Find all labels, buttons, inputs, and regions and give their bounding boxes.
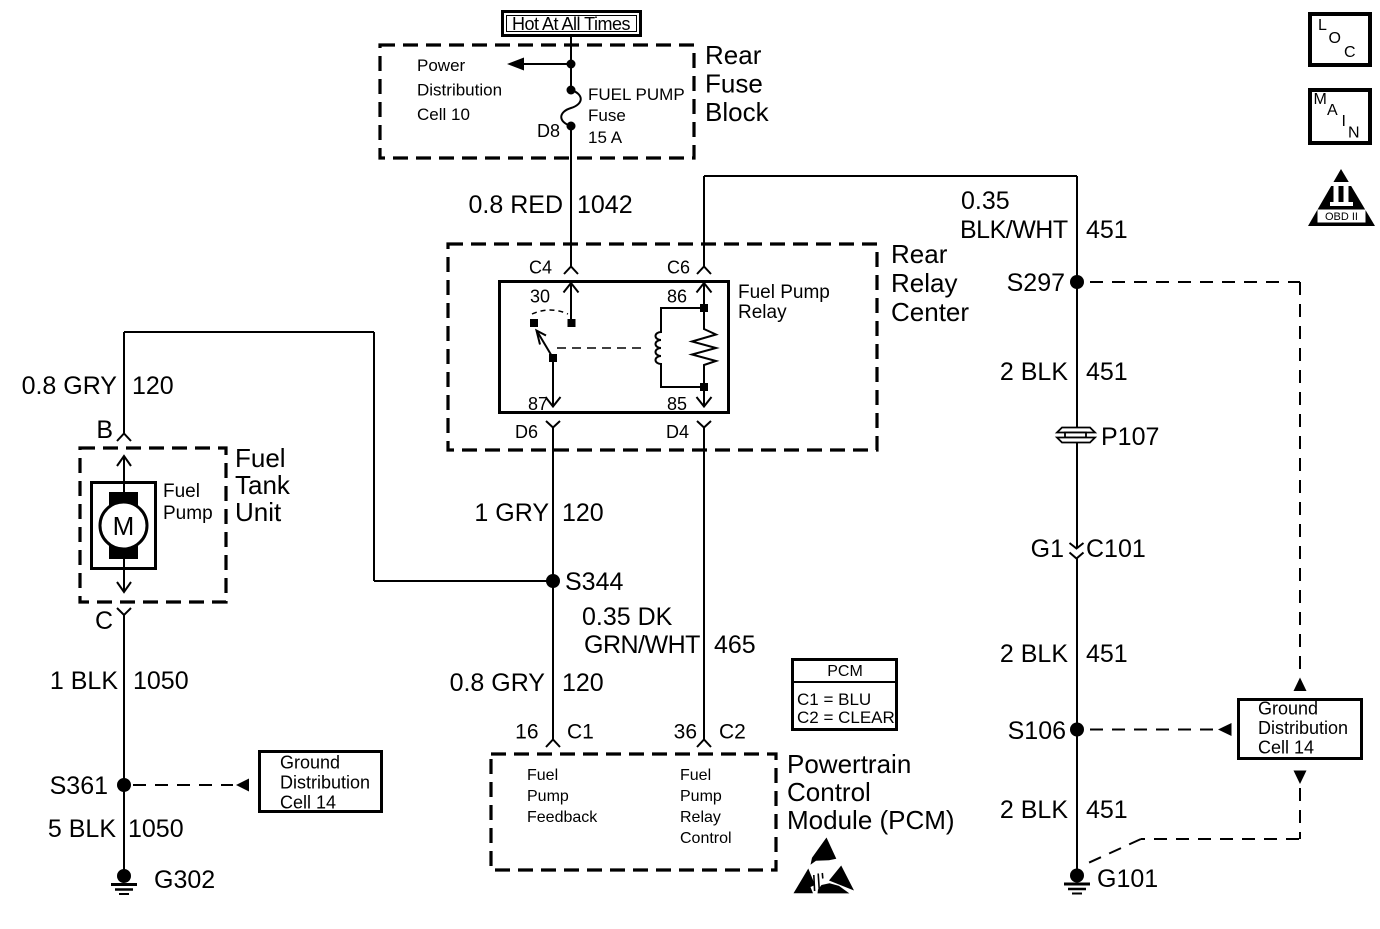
svg-text:S297: S297 xyxy=(1007,269,1065,297)
arrow to Power Distribution Cell 10 xyxy=(507,58,571,71)
svg-text:GRN/WHT: GRN/WHT xyxy=(584,631,700,659)
svg-text:D6: D6 xyxy=(515,422,538,442)
svg-text:Ground: Ground xyxy=(1258,699,1318,719)
svg-text:120: 120 xyxy=(562,499,604,527)
label 0.35 BLK/WHT 451 xyxy=(960,187,1128,244)
label 2 BLK 451 (lower) xyxy=(1000,796,1128,824)
svg-text:C2: C2 xyxy=(719,721,746,744)
svg-text:Hot At All Times: Hot At All Times xyxy=(512,14,631,34)
fuel tank unit dashed box xyxy=(80,448,226,602)
svg-text:451: 451 xyxy=(1086,640,1128,668)
svg-text:G101: G101 xyxy=(1097,865,1158,893)
node S344 xyxy=(546,568,623,596)
svg-text:Pump: Pump xyxy=(163,503,213,524)
PCM connector legend box xyxy=(791,660,897,730)
svg-text:Fuel: Fuel xyxy=(680,767,711,784)
svg-text:Fuel: Fuel xyxy=(163,481,200,502)
switch travel arc dashed xyxy=(532,310,568,314)
svg-text:Rear: Rear xyxy=(891,239,948,269)
svg-text:Powertrain: Powertrain xyxy=(787,749,911,779)
label Fuel Pump Relay Control xyxy=(680,767,732,847)
connector P107 xyxy=(1057,423,1159,451)
svg-text:36: 36 xyxy=(674,721,697,744)
wire from fuel tank B to relay branch xyxy=(124,332,553,581)
svg-text:451: 451 xyxy=(1086,796,1128,824)
arrowhead into box top xyxy=(1294,678,1307,692)
connector G1 C101 xyxy=(1031,535,1146,563)
svg-text:Distribution: Distribution xyxy=(417,81,502,100)
label 0.8 GRY 120 (pcm feedback wire) xyxy=(450,669,604,697)
svg-text:Pump: Pump xyxy=(680,788,722,805)
svg-text:S361: S361 xyxy=(50,772,108,800)
label FUEL PUMP Fuse 15 A xyxy=(588,85,685,147)
svg-text:M: M xyxy=(113,511,135,541)
svg-text:BLK/WHT: BLK/WHT xyxy=(960,216,1068,244)
label 2 BLK 451 (upper) xyxy=(1000,358,1128,386)
svg-text:Fuse: Fuse xyxy=(588,106,626,125)
svg-text:Pump: Pump xyxy=(527,788,569,805)
svg-text:2 BLK: 2 BLK xyxy=(1000,640,1068,668)
svg-text:Rear: Rear xyxy=(705,40,762,70)
arrowhead out of box bottom xyxy=(1294,771,1307,785)
switch blade with arrowhead xyxy=(537,331,558,363)
svg-text:465: 465 xyxy=(714,631,756,659)
power feed box Hot At All Times xyxy=(503,12,641,36)
connector D6 xyxy=(515,421,560,442)
connector C4 xyxy=(529,258,578,278)
svg-text:S344: S344 xyxy=(565,568,623,596)
label Fuel Pump xyxy=(163,481,213,524)
svg-text:Control: Control xyxy=(787,777,871,807)
dashed reference box to G101 xyxy=(1086,788,1300,864)
svg-text:15 A: 15 A xyxy=(588,128,623,147)
dashed reference S297 to ground distribution xyxy=(1090,282,1300,674)
svg-text:L: L xyxy=(1318,17,1327,34)
relay pin 30 terminal arrow xyxy=(564,283,579,327)
svg-text:120: 120 xyxy=(562,669,604,697)
svg-text:Fuel Pump: Fuel Pump xyxy=(738,282,830,303)
svg-text:Fuel: Fuel xyxy=(527,767,558,784)
node S297 xyxy=(1007,269,1084,297)
svg-text:Center: Center xyxy=(891,297,969,327)
svg-text:C1 = BLU: C1 = BLU xyxy=(797,690,871,709)
label Power Distribution Cell 10 xyxy=(417,56,502,124)
connector pin 36 C2 xyxy=(674,721,746,748)
svg-text:1 GRY: 1 GRY xyxy=(474,499,549,527)
pin C xyxy=(95,607,131,635)
svg-text:1050: 1050 xyxy=(133,667,189,695)
ground G302 xyxy=(111,866,215,894)
fuel pump terminal arrow in xyxy=(117,456,131,496)
node S361 xyxy=(50,772,131,800)
svg-text:Power: Power xyxy=(417,56,466,75)
svg-text:D8: D8 xyxy=(537,121,560,141)
icon LOC xyxy=(1310,14,1370,65)
relay resistor xyxy=(692,308,716,387)
wire 0.8 RED 1042 xyxy=(570,126,572,266)
svg-text:5 BLK: 5 BLK xyxy=(48,815,116,843)
svg-text:Distribution: Distribution xyxy=(1258,718,1348,738)
label Rear Relay Center xyxy=(891,239,969,327)
relay pin 86 terminal arrow xyxy=(697,283,712,312)
svg-text:Control: Control xyxy=(680,830,732,847)
svg-text:Fuse: Fuse xyxy=(705,69,763,99)
svg-text:Relay: Relay xyxy=(680,809,721,826)
label Powertrain Control Module (PCM) xyxy=(787,749,955,835)
PCM dashed box xyxy=(491,754,776,870)
wire C6 up and over to right side xyxy=(704,176,1077,427)
icon OBD II triangle xyxy=(1308,169,1375,226)
svg-text:0.8 GRY: 0.8 GRY xyxy=(450,669,546,697)
svg-text:P107: P107 xyxy=(1101,423,1159,451)
svg-text:2 BLK: 2 BLK xyxy=(1000,796,1068,824)
label 0.8 GRY 120 (fuel pump wire) xyxy=(22,372,174,400)
svg-text:451: 451 xyxy=(1086,358,1128,386)
svg-text:OBD II: OBD II xyxy=(1325,211,1358,223)
label 1 BLK 1050 xyxy=(50,667,189,695)
fuel pump terminal arrow out xyxy=(117,559,131,592)
pin B xyxy=(96,416,131,444)
relay coil xyxy=(656,308,705,387)
ground G101 xyxy=(1064,865,1158,894)
svg-text:Cell 14: Cell 14 xyxy=(1258,738,1314,758)
svg-text:C: C xyxy=(95,607,113,635)
arrowhead to ground distribution right xyxy=(1218,723,1232,736)
svg-text:1042: 1042 xyxy=(577,191,633,219)
svg-text:1 BLK: 1 BLK xyxy=(50,667,118,695)
label Rear Fuse Block xyxy=(705,40,770,127)
svg-text:87: 87 xyxy=(528,394,548,414)
svg-text:Relay: Relay xyxy=(738,302,787,323)
svg-text:B: B xyxy=(96,416,113,444)
svg-text:Distribution: Distribution xyxy=(280,773,370,793)
junction dot at fuse feed xyxy=(567,60,576,69)
icon MAIN xyxy=(1310,90,1370,143)
svg-text:0.8 GRY: 0.8 GRY xyxy=(22,372,118,400)
svg-text:C6: C6 xyxy=(667,258,690,278)
svg-text:Block: Block xyxy=(705,97,770,127)
svg-text:86: 86 xyxy=(667,287,687,307)
label 0.35 DK GRN/WHT 465 xyxy=(582,603,756,659)
wire D4 to PCM C2 xyxy=(703,428,705,740)
svg-text:Unit: Unit xyxy=(235,497,282,527)
ESD sensitive symbol xyxy=(794,838,855,894)
svg-text:C: C xyxy=(1344,44,1356,61)
svg-text:A: A xyxy=(1327,102,1338,119)
label Fuel Tank Unit xyxy=(235,443,291,527)
fuel pump motor box xyxy=(92,483,156,569)
label Fuel Pump Feedback xyxy=(527,767,598,826)
connector pin 16 C1 xyxy=(515,721,594,748)
svg-text:C2 = CLEAR: C2 = CLEAR xyxy=(797,708,895,727)
wire hot feed vertical xyxy=(570,37,572,90)
svg-text:30: 30 xyxy=(530,287,550,307)
relay U1 Fuel Pump Relay box xyxy=(500,282,729,413)
svg-text:D4: D4 xyxy=(666,422,689,442)
rear fuse block dashed box xyxy=(380,45,694,158)
svg-text:Cell 14: Cell 14 xyxy=(280,793,336,813)
svg-text:0.35: 0.35 xyxy=(961,187,1010,215)
svg-text:85: 85 xyxy=(667,394,687,414)
svg-text:FUEL PUMP: FUEL PUMP xyxy=(588,85,685,104)
svg-text:G1: G1 xyxy=(1031,535,1064,563)
svg-text:N: N xyxy=(1348,125,1360,142)
svg-text:M: M xyxy=(1314,91,1327,108)
arrowhead to ground distribution left xyxy=(236,779,249,792)
svg-text:120: 120 xyxy=(132,372,174,400)
dashed reference S361 to ground distribution xyxy=(133,784,233,786)
wire D6 to S344 to PCM C1 xyxy=(552,428,554,740)
switch fixed contact xyxy=(530,319,538,327)
wire C to G302 xyxy=(123,615,125,876)
connector D4 xyxy=(666,421,711,442)
svg-text:Module (PCM): Module (PCM) xyxy=(787,805,955,835)
label 0.8 RED 1042 xyxy=(469,191,633,219)
relay coil dashed actuate line xyxy=(557,347,647,349)
svg-text:Fuel: Fuel xyxy=(235,443,286,473)
svg-text:0.8 RED: 0.8 RED xyxy=(469,191,563,219)
svg-text:Tank: Tank xyxy=(235,470,291,500)
svg-text:PCM: PCM xyxy=(827,663,863,680)
svg-text:C1: C1 xyxy=(567,721,594,744)
relay pin 85 terminal arrow xyxy=(697,383,712,407)
svg-text:G302: G302 xyxy=(154,866,215,894)
fuse FUEL PUMP 15 A xyxy=(561,86,581,131)
svg-text:16: 16 xyxy=(515,721,538,744)
ground distribution cell 14 box left xyxy=(260,752,382,813)
wire P107 to C101 xyxy=(1076,443,1078,549)
svg-text:Feedback: Feedback xyxy=(527,809,598,826)
label 1 GRY 120 xyxy=(474,499,603,527)
svg-text:Relay: Relay xyxy=(891,268,957,298)
svg-text:I: I xyxy=(1342,113,1346,130)
motor M1 fuel pump xyxy=(100,492,147,559)
svg-text:C4: C4 xyxy=(529,258,552,278)
svg-text:Cell 10: Cell 10 xyxy=(417,105,470,124)
label 5 BLK 1050 xyxy=(48,815,184,843)
svg-text:Ground: Ground xyxy=(280,753,340,773)
label Fuel Pump Relay xyxy=(738,282,830,323)
connector C6 xyxy=(667,258,711,278)
rear relay center dashed box xyxy=(448,244,877,450)
svg-text:O: O xyxy=(1329,30,1341,47)
svg-text:C101: C101 xyxy=(1086,535,1146,563)
node S106 xyxy=(1008,717,1084,745)
svg-text:2 BLK: 2 BLK xyxy=(1000,358,1068,386)
ground distribution cell 14 box right xyxy=(1239,699,1362,759)
svg-text:451: 451 xyxy=(1086,216,1128,244)
svg-text:0.35 DK: 0.35 DK xyxy=(582,603,673,631)
svg-text:1050: 1050 xyxy=(128,815,184,843)
relay pin 87 terminal arrow xyxy=(546,358,561,407)
wire C101 to G101 xyxy=(1076,559,1078,877)
label 2 BLK 451 (middle) xyxy=(1000,640,1128,668)
dashed reference S106 to ground distribution xyxy=(1090,729,1215,731)
svg-text:S106: S106 xyxy=(1008,717,1066,745)
